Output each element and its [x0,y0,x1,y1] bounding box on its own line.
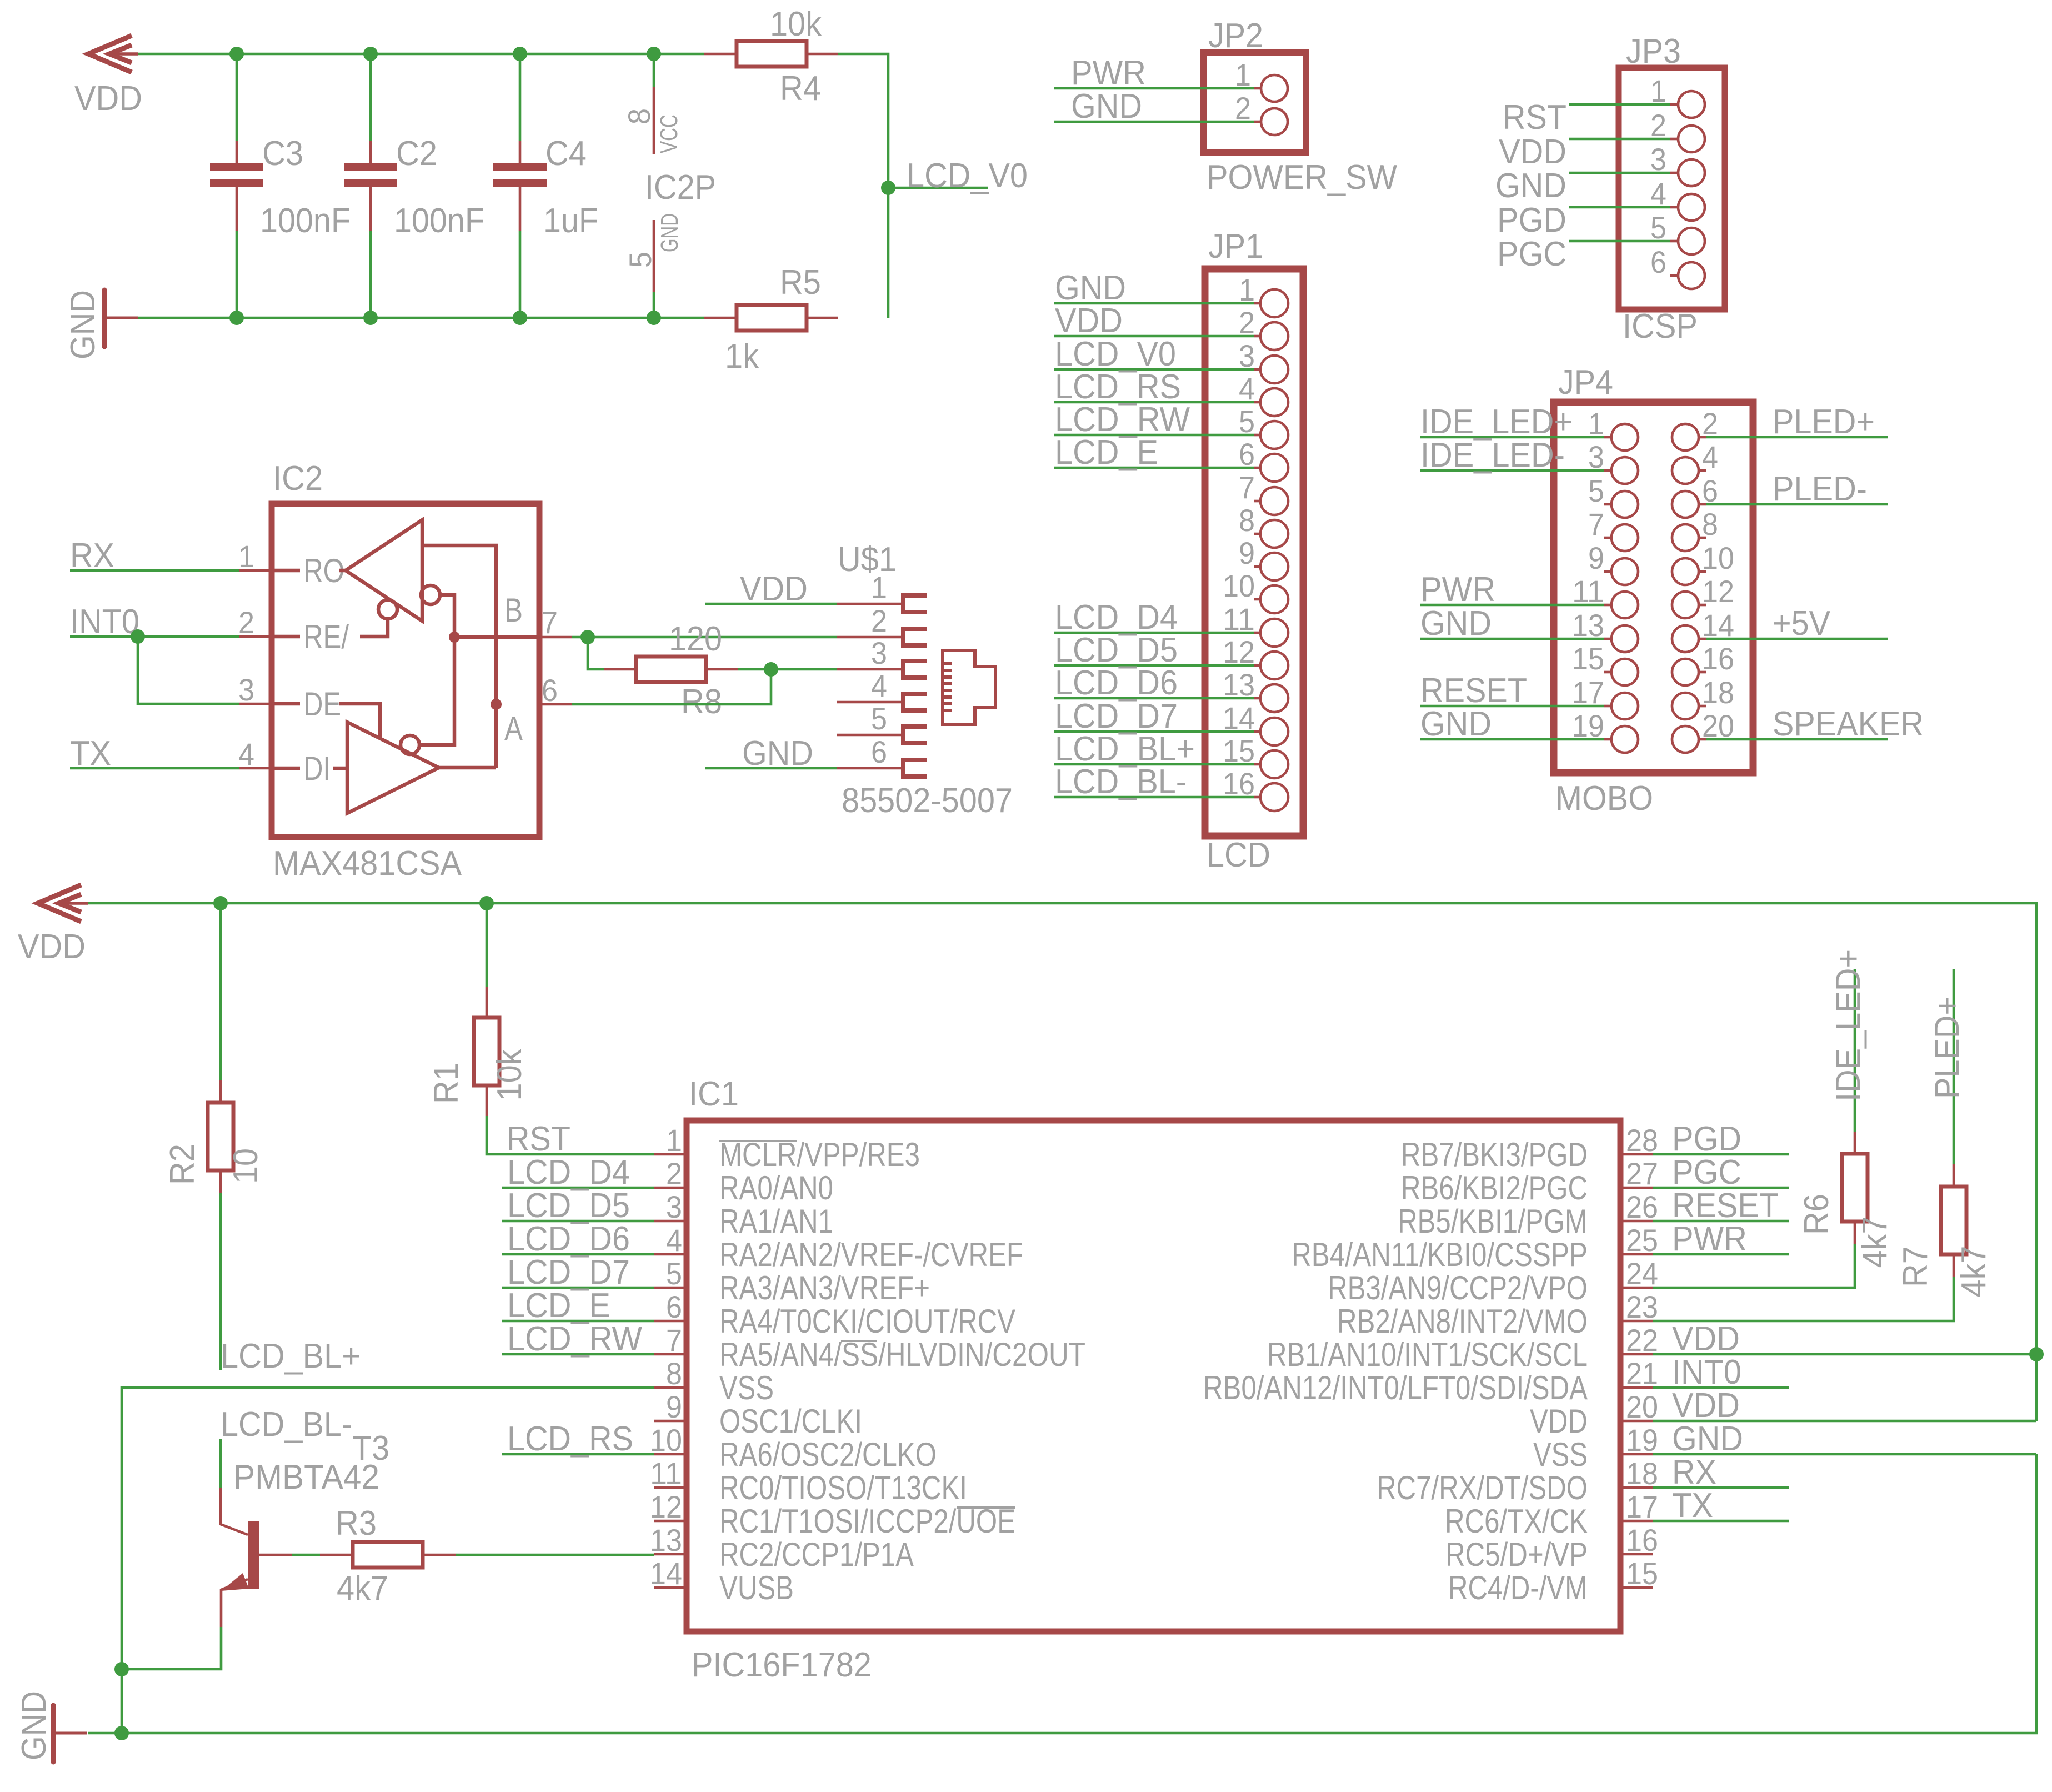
junction B net [580,630,595,644]
svg-text:8: 8 [622,108,657,124]
U$1 pin 3 lead [837,668,902,671]
IC1 pin 20 stub [1620,1420,1653,1423]
svg-text:DE: DE [303,685,341,723]
JP1 pin 10 circle [1260,585,1288,613]
IC2 driver enable bubble [401,735,419,754]
svg-text:PIC16F1782: PIC16F1782 [692,1646,872,1684]
wire IC1 pin 23 to R7 [1653,1277,1954,1321]
wire T3 base to R3 [292,1554,320,1556]
svg-text:26: 26 [1626,1189,1658,1224]
wire LCD_D6 to JP1 pin 13 [1054,697,1254,700]
svg-text:13: 13 [1572,608,1604,643]
resistor R4 right lead [807,53,838,56]
JP1 pin 9 stub [1254,565,1260,568]
junction GND/IC2P [647,311,661,325]
svg-text:4: 4 [238,737,254,772]
wire LCD_RW to JP1 pin 5 [1054,434,1254,437]
svg-text:9: 9 [1239,535,1255,570]
svg-text:25: 25 [1626,1223,1658,1258]
svg-text:ICSP: ICSP [1623,307,1698,346]
svg-text:JP4: JP4 [1558,363,1613,402]
junction VDD/pin22 [2029,1347,2044,1361]
junction VDD/R2 [213,896,228,910]
wire VDD to JP1 pin 2 [1054,335,1254,338]
svg-text:12: 12 [1223,634,1255,669]
svg-text:6: 6 [1702,473,1718,508]
wire INT0 branch to DE [138,637,239,704]
JP1 pin 15 circle [1260,750,1288,778]
svg-text:RB1/AN10/INT1/SCK/SCL: RB1/AN10/INT1/SCK/SCL [1267,1336,1588,1373]
IC1 pin 9 stub [654,1420,687,1423]
IC1 pin 12 stub [654,1520,687,1523]
svg-text:10k: 10k [770,5,822,43]
svg-text:4: 4 [871,668,887,703]
svg-text:4: 4 [1239,371,1255,406]
JP1 pin 6 stub [1254,467,1260,469]
svg-text:RB0/AN12/INT0/LFT0/SDI/SDA: RB0/AN12/INT0/LFT0/SDI/SDA [1203,1369,1588,1406]
wire R6 to IDE_LED+ [1854,969,1856,1132]
svg-text:IDE_LED-: IDE_LED- [1420,436,1565,474]
svg-text:VDD: VDD [1672,1320,1740,1358]
resistor R4 body [737,41,807,67]
svg-text:GND: GND [64,290,102,359]
JP4 pin 11 stub [1604,604,1611,607]
svg-text:IDE_LED+: IDE_LED+ [1829,949,1868,1102]
wire A net to node [572,669,771,704]
capacitor C2 plates [344,163,397,187]
JP2 pin 2 stub [1254,121,1261,123]
overline MCLR [719,1140,797,1142]
JP4 pin 16 circle [1672,659,1699,685]
IC1 pin 17 stub [1620,1520,1653,1523]
wire GND to JP3 pin 3 [1569,172,1670,174]
svg-text:5: 5 [1650,210,1666,245]
svg-text:VDD: VDD [1672,1386,1740,1425]
JP1 pin 7 stub [1254,500,1260,503]
svg-text:RA0/AN0: RA0/AN0 [719,1169,833,1207]
wire GND to JP4 pin 13 [1420,638,1604,640]
svg-text:5: 5 [623,252,658,268]
svg-text:PLED+: PLED+ [1773,403,1875,441]
IC2 receiver enable bubble [421,585,440,604]
svg-text:15: 15 [1572,641,1604,676]
svg-text:LCD_D4: LCD_D4 [507,1153,630,1192]
overline UOE [957,1506,1015,1509]
svg-text:6: 6 [542,673,558,708]
JP4 pin 15 stub [1604,671,1611,674]
svg-text:VDD: VDD [74,79,142,118]
svg-text:8: 8 [1702,507,1718,542]
junction VDD/R1 [479,896,494,910]
IC2 DI to driver base [333,767,347,770]
JP4 pin 12 circle [1672,592,1699,618]
JP4 pin 9 stub [1604,570,1611,573]
JP4 pin 4 circle [1672,457,1699,484]
transistor T3 emitter lead [221,1579,248,1627]
JP1 pin 7 circle [1260,487,1288,515]
JP4 pin 14 stub [1699,638,1706,640]
svg-text:10: 10 [1702,540,1734,575]
junction A net [764,662,778,677]
wire B net to U$1 pin 2 [572,636,837,639]
svg-text:13: 13 [650,1523,682,1558]
wire PWR stub at IC1 pin 25 [1653,1253,1789,1256]
svg-text:LCD_V0: LCD_V0 [907,157,1028,195]
IC2 pin DE inner stub [272,702,300,706]
JP1 pin 4 stub [1254,401,1260,404]
svg-text:RE/: RE/ [303,618,349,655]
resistor R2 top lead [219,1080,222,1103]
svg-text:6: 6 [1239,437,1255,472]
svg-text:16: 16 [1626,1523,1658,1558]
connector U$1 jack symbol [943,650,995,724]
capacitor C3 bottom lead [236,187,238,231]
IC1 pin 1 stub [654,1153,687,1156]
wire LCD_D5 to IC1 pin 3 [502,1220,654,1223]
JP4 pin 18 stub [1699,705,1706,708]
svg-text:PWR: PWR [1420,570,1495,609]
resistor R5 body [737,305,807,331]
wire VSS pin 8 to GND [122,1388,654,1733]
svg-text:19: 19 [1626,1423,1658,1458]
IC1 pin 28 stub [1620,1153,1653,1156]
resistor R4 left lead [704,53,737,56]
JP1 pin 2 stub [1254,335,1260,338]
U$1 pin 1 pad [903,595,927,612]
JP1 pin 11 stub [1254,632,1260,634]
junction VDD/IC2P-VCC [647,47,661,61]
JP4 pin 10 circle [1672,558,1699,585]
svg-text:12: 12 [650,1489,682,1524]
svg-text:15: 15 [1223,733,1255,768]
svg-text:19: 19 [1572,708,1604,743]
capacitor C4 plates [493,163,547,187]
JP4 pin 6 circle [1672,491,1699,518]
wire R2 to LCD_BL+ [219,1193,222,1370]
wire VDD to C2 [369,54,372,141]
wire LCD_RS to IC1 pin 10 [502,1453,654,1456]
svg-text:1k: 1k [725,337,759,376]
svg-text:RB3/AN9/CCP2/VPO: RB3/AN9/CCP2/VPO [1328,1269,1588,1307]
svg-text:LCD_RS: LCD_RS [507,1420,633,1458]
svg-text:GND: GND [1672,1420,1743,1458]
svg-text:2: 2 [1650,108,1666,143]
svg-text:RX: RX [70,537,114,575]
wire C2 to GND [369,231,372,318]
svg-text:1uF: 1uF [543,202,598,240]
wire LCD_D7 to JP1 pin 14 [1054,730,1254,733]
svg-text:U$1: U$1 [838,540,897,579]
JP3 pin 4 stub [1670,206,1678,209]
resistor R5 right lead [807,317,838,319]
JP3 pin 5 circle [1678,228,1705,254]
svg-text:LCD_BL-: LCD_BL- [1055,763,1187,801]
JP4 pin 18 circle [1672,693,1699,719]
svg-text:RO: RO [303,552,344,589]
wire VDD to IC2P VCC pin [653,54,655,87]
svg-text:PGC: PGC [1497,235,1566,273]
U$1 pin 4 pad [903,694,927,710]
svg-text:VUSB: VUSB [719,1569,794,1606]
svg-text:RC2/CCP1/P1A: RC2/CCP1/P1A [719,1536,914,1573]
svg-text:5: 5 [1239,404,1255,439]
svg-text:OSC1/CLKI: OSC1/CLKI [719,1403,862,1440]
svg-text:INT0: INT0 [1672,1353,1741,1391]
JP1 pin 3 circle [1260,356,1288,383]
wire R8 to A node [738,668,771,671]
JP3 pin 3 circle [1678,159,1705,186]
JP3 pin 4 circle [1678,194,1705,221]
svg-text:2: 2 [1702,406,1718,441]
JP1 pin 4 circle [1260,388,1288,416]
svg-text:10: 10 [1223,568,1255,603]
svg-text:R6: R6 [1798,1194,1836,1235]
svg-text:1: 1 [666,1123,682,1158]
svg-text:23: 23 [1626,1289,1658,1324]
JP1 pin 12 circle [1260,652,1288,679]
IC2 B line [454,635,539,639]
IC2 pin RE inner stub [272,635,300,639]
svg-text:100nF: 100nF [394,202,484,240]
JP4 pin 5 circle [1611,491,1638,518]
wire R7 to PLED+ [1953,969,1955,1164]
svg-text:PLED-: PLED- [1773,470,1867,508]
JP3 pin 2 circle [1678,126,1705,152]
svg-text:RC4/D-/VM: RC4/D-/VM [1448,1569,1588,1606]
svg-text:4k7: 4k7 [1955,1246,1993,1298]
svg-text:1: 1 [1588,406,1604,441]
svg-text:18: 18 [1626,1456,1658,1491]
wire A node to U$1 pin 3 [771,668,837,671]
svg-text:INT0: INT0 [70,603,139,641]
JP1 pin 16 stub [1254,796,1260,799]
svg-text:4: 4 [666,1223,682,1258]
IC1 pin 5 stub [654,1287,687,1289]
svg-text:RESET: RESET [1672,1187,1779,1225]
svg-text:JP1: JP1 [1208,227,1263,266]
wire LCD_E to JP1 pin 6 [1054,467,1254,469]
svg-text:RA4/T0CKI/CIOUT/RCV: RA4/T0CKI/CIOUT/RCV [719,1303,1015,1340]
wire PLED+ to JP4 pin 2 [1706,436,1888,439]
svg-text:10: 10 [650,1423,682,1458]
JP4 pin 6 stub [1699,503,1706,506]
junction GND/C4 [513,311,527,325]
svg-text:LCD_BL+: LCD_BL+ [221,1337,361,1375]
svg-text:5: 5 [871,701,887,736]
svg-text:15: 15 [1626,1556,1658,1591]
svg-text:3: 3 [666,1189,682,1224]
svg-text:1: 1 [1235,57,1251,92]
svg-text:R2: R2 [163,1144,202,1185]
svg-text:12: 12 [1702,574,1734,609]
wire PGC to JP3 pin 5 [1569,240,1670,243]
svg-text:VSS: VSS [719,1369,774,1406]
JP1 pin 5 circle [1260,421,1288,449]
svg-text:3: 3 [1650,142,1666,177]
wire PLED- to JP4 pin 6 [1706,503,1888,506]
wire C3 to GND [236,231,238,318]
svg-text:2: 2 [1239,305,1255,340]
svg-text:IC1: IC1 [689,1075,739,1113]
svg-text:B: B [504,592,523,629]
svg-text:R4: R4 [780,69,821,108]
svg-text:PGD: PGD [1497,201,1566,239]
wire LCD_BL- to JP1 pin 16 [1054,796,1254,799]
IC2 internal junction A [491,699,502,710]
JP1 pin 12 stub [1254,664,1260,667]
svg-text:TX: TX [1672,1486,1713,1525]
JP4 pin 1 circle [1611,424,1638,450]
JP4 pin 1 stub [1604,436,1611,439]
resistor R1 body [474,1018,499,1085]
svg-text:RB4/AN11/KBI0/CSSPP: RB4/AN11/KBI0/CSSPP [1292,1236,1588,1273]
JP4 pin 13 stub [1604,638,1611,640]
wire R3 to IC1 pin 13 [456,1554,654,1556]
IC1 pin 26 stub [1620,1220,1653,1223]
IC2 pin 4 stub [239,767,272,770]
IC2 driver output to A [439,766,496,770]
wire VDD bottom rail [88,903,2036,1421]
svg-text:VCC: VCC [655,114,683,153]
JP1 pin 13 circle [1260,684,1288,712]
svg-text:17: 17 [1572,675,1604,710]
wire IC2P GND pin to GND rail [653,292,655,318]
svg-text:7: 7 [542,605,558,640]
IC2 pin DI inner stub [272,767,300,770]
IC2 pin RO inner stub [272,569,300,573]
JP4 pin 20 circle [1672,726,1699,753]
resistor R8 right lead [705,668,738,671]
svg-text:GND: GND [1420,604,1492,643]
wire GND bottom rail (top-left) [138,317,704,319]
JP4 pin 13 circle [1611,625,1638,652]
wire INT0 to IC2 pin 2 [70,635,239,638]
IC1 pin 7 stub [654,1353,687,1356]
svg-text:14: 14 [650,1556,682,1591]
svg-text:1: 1 [238,539,254,574]
wire VDD to R2 [219,903,222,1080]
svg-text:9: 9 [1588,540,1604,575]
wire INT0 stub at IC1 pin 21 [1653,1386,1789,1389]
JP4 pin 17 circle [1611,693,1638,719]
svg-text:LCD_D6: LCD_D6 [507,1220,630,1258]
svg-text:11: 11 [650,1456,682,1491]
svg-text:RST: RST [507,1120,570,1158]
U$1 pin 2 pad [903,629,927,645]
JP3 pin 1 circle [1678,91,1705,118]
svg-text:3: 3 [1588,439,1604,474]
wire B net down to R8 [588,637,604,669]
svg-text:VDD: VDD [18,928,86,966]
JP1 pin 1 circle [1260,289,1288,317]
wire PGD to JP3 pin 4 [1569,206,1670,209]
JP3 pin 2 stub [1670,138,1678,141]
IC2 pin 3 stub [239,703,272,705]
capacitor C2 bottom lead [369,187,372,231]
svg-text:120: 120 [669,620,722,658]
resistor R7 body [1941,1187,1966,1254]
JP4 pin 4 stub [1699,469,1706,472]
transistor T3 collector lead [221,1488,248,1535]
IC2 pin 7 stub (B) [539,636,572,639]
wire LCD_BL- to T3 collector [219,1439,222,1488]
U$1 pin 6 lead [837,767,902,770]
svg-text:RB7/BKI3/PGD: RB7/BKI3/PGD [1401,1136,1588,1173]
wire PGD stub at IC1 pin 28 [1653,1153,1789,1156]
svg-text:R3: R3 [336,1504,377,1543]
JP3 pin 6 stub [1670,274,1678,277]
JP3 pin 1 stub [1670,103,1678,106]
U$1 pin 4 lead [837,701,902,704]
svg-text:R8: R8 [681,683,722,721]
wire VDD to IC1 pin 20 [1653,1420,2036,1423]
JP4 pin 7 circle [1611,524,1638,551]
svg-text:GND: GND [1420,705,1492,743]
U$1 pin 5 lead [837,734,902,737]
IC2 RO to receiver apex [339,569,347,573]
wire LCD_D4 to IC1 pin 2 [502,1187,654,1189]
svg-text:8: 8 [1239,503,1255,538]
svg-text:1: 1 [1650,73,1666,108]
svg-text:RB6/KBI2/PGC: RB6/KBI2/PGC [1401,1169,1588,1207]
resistor R7 top lead [1953,1164,1955,1187]
capacitor C4 bottom lead [519,187,522,231]
svg-text:IC2P: IC2P [645,168,716,207]
svg-text:GND: GND [1495,167,1566,205]
svg-text:MAX481CSA: MAX481CSA [273,844,462,883]
IC1 pin 24 stub [1620,1287,1653,1289]
IC2 enable chain wire [419,595,454,745]
JP1 pin 5 stub [1254,434,1260,437]
svg-text:18: 18 [1702,675,1734,710]
JP1 pin 2 circle [1260,322,1288,350]
svg-text:2: 2 [238,605,254,640]
IC1 pin 10 stub [654,1453,687,1456]
JP4 pin 10 stub [1699,570,1706,573]
svg-text:13: 13 [1223,667,1255,702]
VDD supply arrow [88,36,138,72]
svg-text:14: 14 [1223,700,1255,735]
IC1 pin 6 stub [654,1320,687,1323]
IC1 pin 3 stub [654,1220,687,1223]
wire LCD_D4 to JP1 pin 11 [1054,632,1254,634]
svg-text:2: 2 [666,1156,682,1191]
svg-text:A: A [504,710,523,747]
svg-text:RC7/RX/DT/SDO: RC7/RX/DT/SDO [1377,1469,1588,1506]
svg-text:MOBO: MOBO [1555,779,1653,818]
JP4 pin 2 circle [1672,424,1699,450]
IC2 RE riser [360,619,388,637]
JP1 pin 8 stub [1254,533,1260,535]
connector JP1 body [1205,269,1303,836]
svg-text:LCD_RW: LCD_RW [507,1320,642,1358]
svg-text:VSS: VSS [1533,1436,1588,1473]
svg-text:C2: C2 [396,134,437,173]
wire LCD_D7 to IC1 pin 5 [502,1287,654,1289]
resistor R2 bottom lead [219,1170,222,1193]
svg-text:LCD_D5: LCD_D5 [507,1187,630,1225]
JP1 pin 9 circle [1260,553,1288,580]
U$1 pin 2 lead [837,636,902,639]
JP3 pin 3 stub [1670,172,1678,174]
svg-text:SPEAKER: SPEAKER [1773,705,1924,743]
wire VDD to JP3 pin 2 [1569,138,1670,141]
power flag GND (bottom) [53,1705,87,1762]
svg-text:LCD: LCD [1207,836,1270,874]
wire R1 to RST [487,1116,654,1154]
wire LCD_V0 stub [888,187,988,189]
svg-text:RX: RX [1672,1453,1716,1491]
